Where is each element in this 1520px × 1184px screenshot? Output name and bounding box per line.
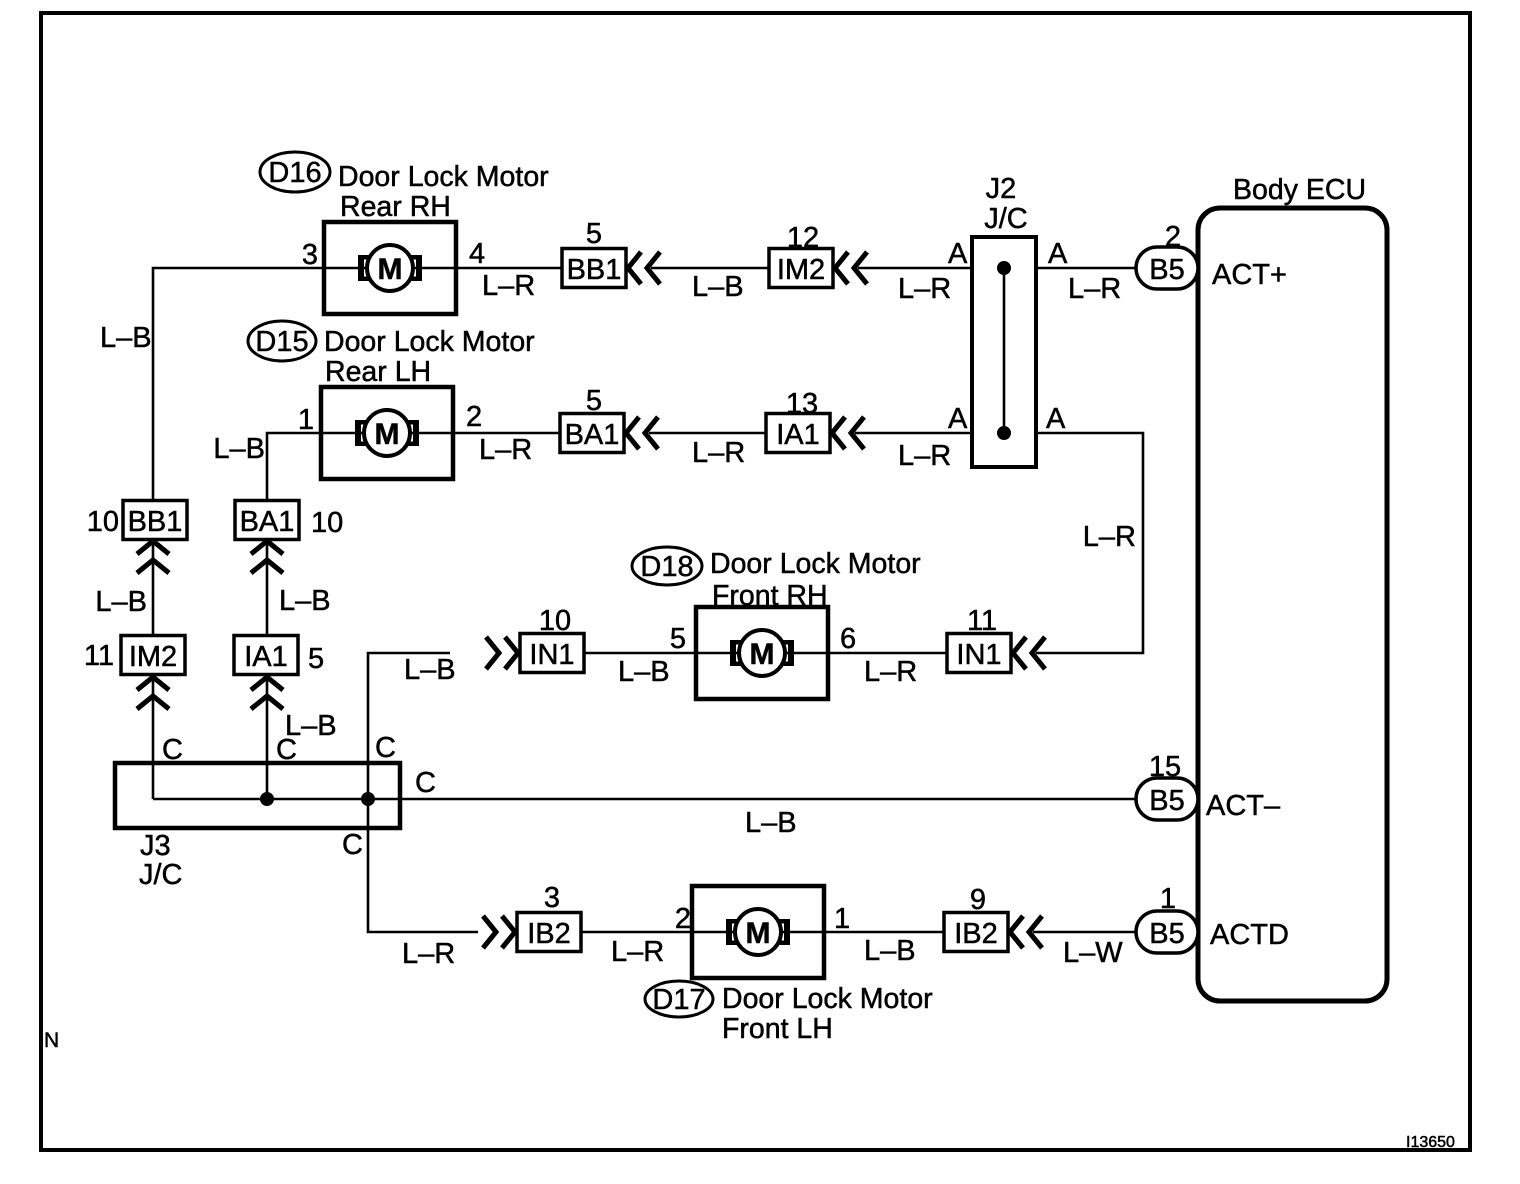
svg-text:10: 10 [539, 605, 571, 637]
wire D15 pin2 to BA1 (L-R) [453, 432, 560, 435]
svg-text:B5: B5 [1149, 254, 1184, 286]
connector BA1 pin 5 (row2) [560, 385, 658, 453]
motor D17 Door Lock Motor Front LH [692, 886, 824, 978]
svg-text:ACTD: ACTD [1210, 919, 1289, 951]
svg-text:J/C: J/C [139, 859, 183, 891]
svg-text:C: C [415, 767, 436, 799]
connector IB2 pin 3 (row5 left) [483, 882, 581, 952]
svg-text:J/C: J/C [984, 203, 1028, 235]
wire BA1 to IA1 (L-B) [266, 539, 269, 636]
wire D17 pin1 to IB2 (L-B) [824, 931, 944, 934]
J3 junction dot (IA1 branch) [260, 792, 274, 806]
svg-text:Door Lock Motor: Door Lock Motor [324, 326, 535, 358]
svg-text:A: A [1046, 403, 1066, 435]
svg-text:L–R: L–R [1068, 273, 1121, 305]
svg-text:L–B: L–B [404, 654, 456, 686]
svg-text:2: 2 [466, 401, 482, 433]
svg-text:10: 10 [87, 506, 119, 538]
svg-text:1: 1 [298, 404, 314, 436]
connector BB1 pin 5 (row1) [562, 218, 660, 288]
svg-text:C: C [375, 732, 396, 764]
label D17 [645, 981, 713, 1017]
svg-text:J2: J2 [986, 173, 1017, 205]
svg-text:L–R: L–R [692, 437, 745, 469]
svg-text:6: 6 [840, 623, 856, 655]
svg-text:I13650: I13650 [1406, 1134, 1455, 1151]
svg-text:L–B: L–B [95, 586, 147, 618]
svg-text:A: A [1048, 238, 1068, 270]
wire BB1 chevron to IM2 (L-B) [651, 267, 769, 270]
svg-text:L–R: L–R [864, 656, 917, 688]
terminal B5 pin 1 ACTD [1136, 883, 1289, 953]
svg-text:L–B: L–B [692, 271, 744, 303]
junction connector J3 J/C [115, 763, 400, 891]
svg-text:11: 11 [84, 640, 114, 672]
svg-text:Door Lock Motor: Door Lock Motor [710, 548, 921, 580]
wire IN1 to D18 pin5 (L-B) [584, 652, 696, 655]
svg-text:3: 3 [544, 882, 560, 914]
svg-text:IM2: IM2 [129, 641, 177, 673]
wire IB2 to D17 pin2 (L-R) [581, 931, 692, 934]
svg-text:1: 1 [834, 903, 850, 935]
svg-text:L–R: L–R [611, 936, 664, 968]
svg-text:5: 5 [308, 643, 324, 675]
svg-text:A: A [948, 403, 968, 435]
svg-text:IA1: IA1 [776, 419, 820, 451]
svg-text:IM2: IM2 [777, 254, 825, 286]
svg-text:2: 2 [1165, 221, 1181, 253]
terminal B5 pin 15 ACT- [1136, 751, 1281, 822]
svg-text:IA1: IA1 [244, 641, 288, 673]
title Door Lock Motor Rear LH [324, 326, 535, 388]
svg-text:C: C [342, 829, 363, 861]
svg-text:13: 13 [786, 388, 818, 420]
svg-text:L–R: L–R [482, 270, 535, 302]
svg-text:D17: D17 [652, 984, 705, 1016]
svg-text:IB2: IB2 [954, 918, 998, 950]
wire IB2 chevron to B5 ACTD (L-W) [1033, 931, 1136, 934]
title Door Lock Motor Front LH [722, 983, 933, 1045]
connector BB1 pin 10 (left column) [87, 501, 187, 574]
wire IM2 chevron to J2 (L-R) [858, 267, 972, 270]
J2 internal bus wire [1003, 268, 1006, 433]
wire BB1 to IM2 (L-B) [152, 540, 155, 636]
svg-text:10: 10 [311, 507, 343, 539]
svg-text:L–B: L–B [745, 807, 797, 839]
svg-text:Rear LH: Rear LH [325, 356, 431, 388]
wire D16 pin4 to BB1 (L-R) [456, 267, 562, 270]
svg-text:D16: D16 [268, 157, 321, 189]
svg-text:BA1: BA1 [240, 506, 295, 538]
svg-text:BA1: BA1 [565, 419, 620, 451]
svg-text:L–B: L–B [864, 935, 916, 967]
svg-text:5: 5 [586, 385, 602, 417]
svg-text:Rear RH: Rear RH [340, 191, 451, 223]
connector IN1 pin 10 (row3 left) [486, 605, 584, 673]
svg-text:Body ECU: Body ECU [1233, 174, 1366, 206]
wire IA1 to J3 (C) [266, 675, 269, 799]
J2 junction dot (row1) [997, 261, 1011, 275]
svg-text:L–W: L–W [1063, 937, 1123, 969]
wire IA1 chevron to J2 (L-R) [855, 432, 972, 435]
svg-text:IN1: IN1 [529, 639, 574, 671]
svg-text:B5: B5 [1149, 918, 1184, 950]
svg-text:BB1: BB1 [128, 506, 183, 538]
svg-text:BB1: BB1 [567, 254, 622, 286]
connector IA1 pin 13 (row2) [766, 388, 864, 453]
label D15 [248, 321, 316, 361]
motor D16 Door Lock Motor Rear RH [324, 222, 456, 314]
wire J2 to B5 ACT+ (L-R) [1036, 267, 1136, 270]
svg-text:L–B: L–B [618, 656, 670, 688]
connector IA1 pin 5 (left column) [234, 636, 324, 710]
title Door Lock Motor Front RH [710, 548, 921, 612]
svg-text:L–R: L–R [479, 434, 532, 466]
J3 junction dot (front branch) [361, 792, 375, 806]
title Door Lock Motor Rear RH [338, 161, 549, 223]
wire J3 up to front-RH branch (C / L-B) [368, 653, 450, 799]
connector IM2 pin 11 (left column) [84, 636, 185, 710]
svg-text:Door Lock Motor: Door Lock Motor [338, 161, 549, 193]
wire L-B: D16 pin3 down-left to BB1 [153, 268, 324, 501]
wire D18 pin6 to IN1 (L-R) [828, 652, 947, 655]
Body ECU [1198, 174, 1387, 1001]
connector IB2 pin 9 (row5 right) [944, 884, 1042, 952]
svg-text:ACT+: ACT+ [1212, 259, 1287, 291]
svg-text:L–R: L–R [402, 938, 455, 970]
svg-text:A: A [948, 238, 968, 270]
svg-text:L–B: L–B [100, 322, 152, 354]
terminal B5 pin 2 ACT+ [1136, 221, 1287, 291]
svg-text:2: 2 [675, 903, 691, 935]
svg-text:15: 15 [1149, 751, 1181, 783]
wire J3 bus to B5 ACT- (C / L-B) [153, 798, 1136, 801]
svg-text:N: N [44, 1029, 59, 1052]
wire J3 down to front-LH branch (C / L-R) [368, 799, 478, 932]
svg-text:L–B: L–B [279, 585, 331, 617]
svg-text:5: 5 [670, 623, 686, 655]
svg-text:L–R: L–R [898, 273, 951, 305]
svg-text:5: 5 [586, 218, 602, 250]
connector BA1 pin 10 (left column) [235, 501, 343, 574]
label D18 [632, 547, 702, 585]
svg-text:L–B: L–B [213, 433, 265, 465]
connector IM2 pin 12 (row1) [769, 222, 867, 288]
svg-text:12: 12 [787, 222, 819, 254]
svg-text:L–R: L–R [1083, 521, 1136, 553]
wire L-B: D15 pin1 down-left to BA1 [267, 433, 321, 500]
motor D15 Door Lock Motor Rear LH [321, 387, 453, 479]
wire J2 down to IN1 right (L-R) [1036, 433, 1143, 653]
svg-text:4: 4 [469, 238, 485, 270]
svg-text:3: 3 [302, 239, 318, 271]
svg-text:C: C [276, 734, 297, 766]
svg-text:L–R: L–R [898, 440, 951, 472]
wire IM2 to J3 (C) [152, 675, 155, 799]
svg-text:9: 9 [970, 884, 986, 916]
svg-text:IN1: IN1 [956, 639, 1001, 671]
svg-text:Door Lock Motor: Door Lock Motor [722, 983, 933, 1015]
label D16 [260, 152, 330, 192]
svg-text:C: C [162, 734, 183, 766]
svg-text:D18: D18 [640, 551, 693, 583]
junction connector J2 J/C [972, 173, 1036, 467]
motor D18 Door Lock Motor Front RH [696, 607, 828, 699]
J2 junction dot (row2) [997, 426, 1011, 440]
svg-text:B5: B5 [1149, 785, 1184, 817]
svg-text:D15: D15 [255, 326, 308, 358]
wire BA1 chevron to IA1 (L-R) [649, 432, 766, 435]
connector IN1 pin 11 (row3 right) [947, 605, 1045, 673]
svg-text:Front RH: Front RH [712, 580, 828, 612]
svg-text:Front LH: Front LH [722, 1013, 833, 1045]
svg-text:ACT–: ACT– [1206, 790, 1281, 822]
svg-text:1: 1 [1160, 883, 1176, 915]
svg-text:J3: J3 [140, 830, 171, 862]
svg-text:IB2: IB2 [527, 918, 571, 950]
svg-text:11: 11 [967, 605, 997, 637]
